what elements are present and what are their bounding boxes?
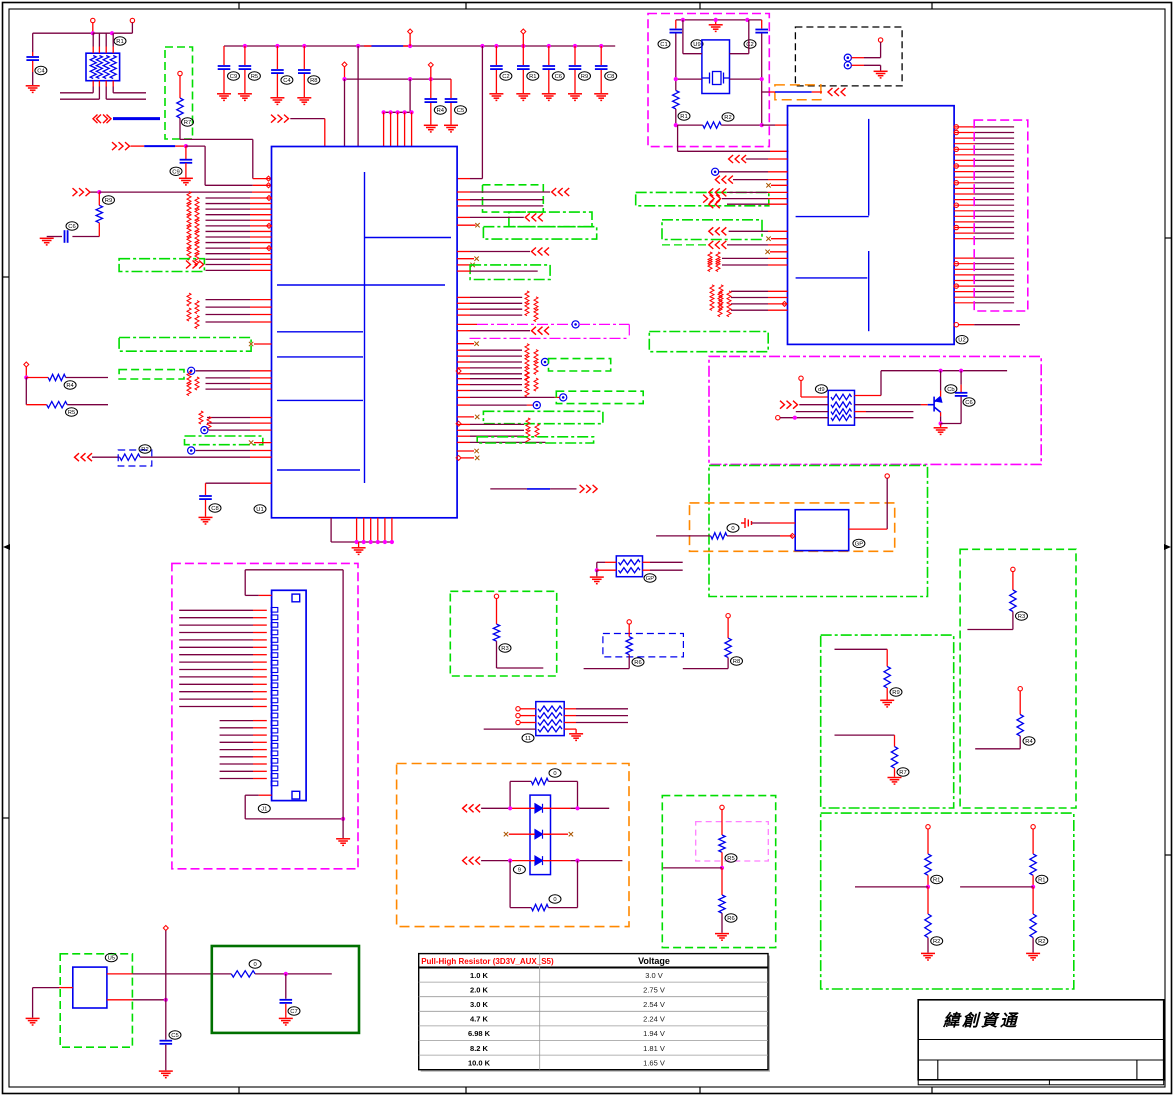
ground (40, 238, 54, 245)
series resistor (716, 252, 720, 265)
svg-text:C6: C6 (555, 74, 562, 80)
refdes (500, 72, 512, 80)
pin (790, 533, 795, 538)
refdes (64, 381, 76, 389)
wire (106, 98, 146, 100)
wire U1 pin (206, 321, 251, 323)
refdes (1036, 937, 1048, 945)
wire U2 pin (954, 176, 974, 178)
series resistor (195, 231, 199, 244)
wire (180, 138, 253, 140)
junction (164, 998, 168, 1002)
wire (721, 124, 762, 126)
wire (974, 324, 1020, 326)
wire (1032, 938, 1034, 953)
ground (569, 734, 583, 741)
net pin (188, 367, 195, 374)
wire (574, 46, 576, 65)
wire connector pin (220, 749, 253, 751)
svg-text:Pull-High Resistor (3D3V_AUX_S: Pull-High Resistor (3D3V_AUX_S5) (421, 957, 554, 966)
junction (939, 421, 943, 425)
border tick top (465, 3, 467, 10)
wire (342, 819, 344, 838)
wire (205, 500, 207, 517)
svg-text:R5: R5 (251, 74, 258, 80)
arrow (828, 88, 846, 96)
pin (726, 614, 730, 618)
pin (267, 196, 272, 201)
wire (59, 987, 73, 989)
series resistor (187, 371, 191, 384)
wire U2 pin (731, 309, 768, 311)
junction (408, 44, 412, 48)
bus wire (113, 117, 160, 120)
series resistor (195, 253, 199, 266)
wire (530, 860, 535, 862)
svg-text:10.0 K: 10.0 K (468, 1058, 491, 1067)
wire (677, 125, 679, 151)
wire (727, 535, 780, 537)
pin (24, 362, 29, 367)
resistor element (90, 56, 96, 79)
wire connector pin (179, 698, 253, 700)
wire U2 pin (954, 274, 974, 276)
wire (276, 74, 278, 97)
power bus wire (224, 45, 615, 47)
wire (564, 708, 576, 710)
refdes J1 (258, 804, 270, 812)
wire (60, 98, 99, 100)
junction (508, 859, 512, 863)
refdes U1 (254, 505, 266, 513)
wire U2 pin (954, 263, 974, 265)
svg-text:U2: U2 (958, 338, 965, 344)
wire U2 pin (731, 290, 768, 292)
wire to U2 (762, 124, 775, 126)
refdes (549, 769, 561, 777)
refdes (931, 937, 943, 945)
diode (535, 830, 543, 839)
voltage table (419, 954, 770, 1072)
wire (344, 79, 346, 146)
wire (98, 223, 100, 237)
refdes (725, 854, 737, 862)
series resistor (534, 361, 538, 374)
orange group box (775, 85, 821, 100)
wire U1 pin (207, 422, 250, 424)
wire (223, 70, 225, 93)
capacitor (199, 496, 212, 499)
U1 internal line (277, 469, 360, 471)
resistor network RN2 (536, 702, 564, 736)
svg-text:C7: C7 (290, 1009, 297, 1015)
wire (570, 860, 622, 862)
resistor R11 (673, 91, 679, 109)
svg-text:0: 0 (731, 526, 734, 532)
wire (93, 32, 133, 34)
wire U2 pin (719, 171, 768, 173)
wire (849, 528, 888, 530)
wire (107, 973, 132, 975)
wire U1 pin (457, 378, 470, 380)
resistor (493, 624, 499, 641)
wire (522, 70, 524, 93)
svg-text:2.75 V: 2.75 V (643, 985, 665, 994)
wire (544, 860, 570, 862)
wire stub (457, 450, 474, 452)
pin (456, 369, 461, 374)
wire (430, 79, 432, 98)
wire U1 pin (207, 417, 250, 419)
refdes (658, 40, 670, 48)
capacitor (543, 66, 556, 69)
blue dashed box (603, 634, 684, 657)
wire (244, 70, 246, 93)
wire (99, 191, 252, 193)
green group box (821, 635, 954, 808)
wire (509, 833, 535, 835)
wire U2 pin (954, 199, 974, 201)
pin (954, 181, 958, 185)
pin (627, 620, 631, 624)
resistor element (538, 726, 562, 732)
pin (163, 926, 168, 931)
wire (196, 450, 250, 452)
pin (266, 176, 271, 181)
green group box (483, 185, 544, 212)
refdes (691, 40, 703, 48)
resistor (120, 454, 140, 460)
wire connector pin (220, 756, 253, 758)
wire U1 pin (206, 258, 251, 260)
wire (1032, 829, 1034, 854)
green group box (477, 437, 593, 443)
green group box (662, 220, 762, 240)
junction (599, 44, 603, 48)
wire (32, 52, 34, 56)
net pin (533, 402, 540, 409)
U1 internal line (277, 356, 363, 358)
refdes (725, 914, 737, 922)
title block (918, 1000, 1163, 1085)
wire (25, 378, 27, 405)
ground (921, 953, 935, 960)
no-connect (474, 257, 478, 261)
wire (940, 391, 942, 397)
wire U2 pin (954, 171, 974, 173)
wire U1 pin (206, 208, 251, 210)
wire (564, 728, 576, 730)
arrow (73, 188, 91, 196)
wire (98, 33, 100, 46)
resistor network RN1 (86, 53, 120, 80)
green net line (662, 244, 709, 246)
wire (927, 829, 929, 854)
no-connect (249, 440, 253, 444)
wire (470, 178, 482, 180)
wire U1 pin (457, 384, 470, 386)
series resistor (708, 259, 712, 272)
green group box (483, 411, 603, 423)
svg-text:3.0 V: 3.0 V (645, 971, 663, 980)
green group box (636, 192, 769, 205)
wire U2 pin (954, 182, 974, 184)
svg-text:C8: C8 (607, 74, 614, 80)
refdes (522, 734, 534, 742)
wire connector pin (179, 661, 253, 663)
wire (967, 629, 1013, 631)
wire (596, 570, 598, 576)
resistor element (831, 415, 852, 421)
wire U2 pin (954, 137, 974, 139)
wire connector pin (220, 763, 253, 765)
refdes (308, 76, 320, 84)
ground (715, 934, 729, 941)
wire (496, 641, 498, 668)
diode (535, 856, 543, 865)
resistor network GP (616, 556, 642, 577)
wire (112, 87, 114, 93)
wire (384, 111, 412, 113)
arrow (525, 213, 543, 221)
svg-text:R6: R6 (727, 916, 734, 922)
pin (954, 284, 958, 288)
wire U1 pin (384, 518, 386, 542)
no-connect (475, 456, 479, 460)
wire (276, 46, 278, 69)
wire (835, 734, 895, 736)
wire stub (457, 264, 470, 266)
svg-text:GP: GP (646, 576, 655, 582)
wire (32, 72, 34, 85)
wire U2 pin (954, 221, 974, 223)
wire (105, 87, 107, 100)
wire (330, 518, 332, 542)
wire (223, 46, 225, 65)
wire U1 pin (457, 199, 470, 201)
wire U1 pin (206, 225, 251, 227)
wire (509, 781, 511, 808)
capacitor (569, 66, 582, 69)
wire (179, 76, 181, 98)
resistor element (831, 402, 852, 408)
arrow in (112, 142, 130, 150)
series resistor (719, 297, 723, 310)
border tick bottom (238, 1087, 240, 1094)
capacitor C1 (26, 57, 39, 60)
wire U2 pin (954, 143, 974, 145)
wire U1 pin (206, 247, 251, 249)
wire (548, 70, 550, 93)
series resistor (718, 291, 722, 304)
wire (165, 931, 167, 1040)
border centre arrow left (3, 544, 10, 550)
pin (516, 720, 520, 724)
svg-text:R5: R5 (68, 410, 75, 416)
wire U1 pin (457, 367, 470, 369)
svg-text:R1: R1 (116, 39, 123, 45)
refdes U5 (105, 953, 117, 961)
refdes U2 (956, 336, 968, 344)
wire (510, 807, 534, 809)
magenta net (579, 323, 629, 325)
wire U2 pin (954, 204, 974, 206)
wire (799, 404, 828, 406)
border centre arrow right (1164, 544, 1171, 550)
wire U2 pin (954, 296, 974, 298)
refdes (644, 574, 656, 582)
wire (628, 624, 630, 637)
wire to U2 (678, 150, 770, 152)
refdes (248, 72, 260, 80)
series resistor (187, 236, 191, 249)
border tick top (238, 3, 240, 10)
junction (356, 44, 360, 48)
wire (357, 46, 359, 147)
arrow (463, 804, 481, 812)
wire (548, 780, 577, 782)
arrow (780, 401, 798, 409)
oscillator body U3 (795, 510, 849, 551)
wire stub (457, 224, 476, 226)
refdes (731, 657, 743, 665)
no-connect (504, 832, 508, 836)
wire (959, 324, 975, 326)
wire (520, 715, 536, 717)
connector J1 body (272, 590, 307, 800)
net pin (201, 427, 208, 434)
green group box (165, 47, 193, 139)
wire (675, 109, 677, 125)
wire (112, 81, 114, 87)
wire stub (457, 343, 474, 345)
wire (165, 1045, 167, 1071)
green group box divider (662, 796, 775, 948)
svg-text:C6: C6 (68, 224, 75, 230)
wire (105, 47, 107, 54)
pin (494, 594, 498, 598)
series resistor (716, 259, 720, 272)
wire (864, 57, 881, 59)
resistor (925, 914, 931, 938)
junction (521, 44, 525, 48)
refdes (209, 504, 221, 512)
series resistor (525, 303, 529, 316)
diode (535, 804, 543, 813)
svg-text:2.24 V: 2.24 V (643, 1015, 665, 1024)
wire connector pin (220, 734, 253, 736)
pin VCC (91, 18, 95, 22)
wire (1032, 887, 1034, 914)
refdes RN1 (114, 37, 126, 45)
refdes (228, 72, 240, 80)
junction (383, 540, 387, 544)
wire (727, 658, 729, 669)
wire (600, 46, 602, 65)
green group box (509, 212, 592, 227)
series resistor (525, 344, 529, 357)
wire (960, 371, 962, 385)
svg-text:Cb: Cb (947, 387, 954, 393)
U2 internal line (796, 277, 868, 279)
junction (376, 540, 380, 544)
refdes (249, 960, 261, 968)
resistor (1030, 854, 1036, 875)
junction (382, 110, 386, 114)
wire U2 pin (954, 132, 974, 134)
capacitor (490, 66, 503, 69)
resistor (719, 895, 725, 913)
wire connector pin (179, 669, 253, 671)
svg-text:1.65 V: 1.65 V (643, 1058, 665, 1067)
svg-text:4.7 K: 4.7 K (470, 1015, 489, 1024)
green group box dividers (821, 813, 1074, 989)
svg-text:U9: U9 (693, 42, 700, 48)
wire connector pin (179, 683, 253, 685)
wire (1012, 572, 1014, 590)
U2 internal line (868, 251, 870, 331)
wire (752, 522, 771, 524)
svg-text:J1: J1 (261, 807, 267, 813)
magenta group box (974, 120, 1028, 311)
junction (793, 416, 797, 420)
svg-text:0: 0 (553, 771, 556, 777)
pink group box (696, 822, 769, 861)
ground (489, 94, 503, 101)
arrow (715, 176, 733, 184)
wire U2 pin (954, 154, 974, 156)
wire (548, 907, 577, 909)
U2 internal line (796, 216, 869, 218)
junction (341, 817, 345, 821)
IC U1 body (272, 147, 458, 518)
wire (32, 988, 34, 1018)
wire (880, 371, 882, 396)
magenta net (477, 323, 572, 325)
wire U1 pin (457, 191, 470, 193)
wire stub (771, 184, 788, 186)
wire U1 pin (206, 219, 251, 221)
bus blue segment (371, 45, 403, 47)
wire U2 pin (954, 285, 974, 287)
wire (522, 46, 524, 65)
wire (344, 67, 346, 79)
wire (497, 667, 544, 669)
wire U2 pin (954, 215, 974, 217)
resistor (891, 747, 897, 769)
pin (776, 416, 780, 420)
refdes (897, 768, 909, 776)
wire connector pin (179, 609, 253, 611)
svg-text:U1: U1 (256, 507, 263, 513)
resistor element (538, 720, 562, 726)
pin (516, 713, 520, 717)
pin (516, 707, 520, 711)
wire (206, 269, 251, 271)
svg-text:R1: R1 (529, 74, 536, 80)
wire (886, 478, 888, 529)
resistor R0 (711, 533, 727, 539)
wire (254, 442, 272, 444)
wire (628, 655, 630, 669)
junction (575, 859, 579, 863)
wire (390, 112, 392, 146)
series resistor (187, 192, 191, 205)
wire U1 pin (457, 423, 470, 425)
junction (24, 375, 28, 379)
junction (390, 540, 394, 544)
svg-text:R2: R2 (724, 115, 731, 121)
